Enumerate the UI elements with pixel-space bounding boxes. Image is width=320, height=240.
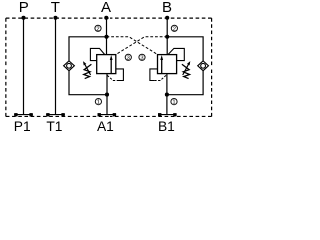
node A pilot junction: [104, 35, 108, 39]
relief valve V1 pilot loop (left): [90, 48, 104, 60]
wire check branch A top: [69, 37, 107, 61]
callout circle 2 (right): [171, 25, 177, 31]
svg-text:P: P: [19, 0, 29, 16]
check valve CV1 (diamond with ball): [64, 61, 75, 71]
wire below valve V1 to A1: [106, 74, 108, 115]
node A lower junction: [105, 93, 109, 97]
node P (dot on border): [21, 16, 25, 20]
relief valve V1 spring: [84, 64, 92, 78]
svg-text:2: 2: [96, 26, 99, 32]
svg-text:3: 3: [127, 55, 130, 61]
wire T to T1: [55, 18, 57, 115]
node A (dot on border): [104, 16, 108, 20]
wire B down to valve V2: [166, 18, 168, 55]
svg-text:A: A: [101, 0, 111, 16]
svg-text:B1: B1: [158, 119, 175, 132]
relief valve V1 spring adjust arrow: [84, 63, 91, 75]
svg-text:1: 1: [97, 100, 100, 106]
callout circle 2 (left): [95, 25, 101, 31]
svg-text:A1: A1: [97, 119, 114, 132]
port A1 face connection: [98, 113, 117, 116]
port T1 face connection: [46, 113, 65, 116]
wire A down to valve V1: [106, 18, 108, 55]
svg-text:T1: T1: [46, 119, 62, 132]
relief valve V1 body: [97, 55, 116, 74]
node T (dot on border): [53, 16, 57, 20]
node B lower junction: [165, 93, 169, 97]
relief valve V2 pilot loop (right): [168, 48, 184, 60]
svg-text:P1: P1: [14, 119, 31, 132]
relief valve V1 drain loop (right): [116, 69, 124, 81]
wire below valve V2 to B1: [166, 74, 168, 115]
relief valve V1 drain dashed link: [107, 75, 119, 80]
wire check branch A bottom: [69, 71, 107, 95]
wire P to P1: [23, 18, 25, 115]
relief valve V2 spring adjust arrow: [183, 63, 190, 75]
relief valve V2 drain loop (left): [150, 69, 158, 81]
pilot line B to V1 (dashed crossover): [116, 37, 167, 55]
callout circle 1 (right): [171, 99, 177, 105]
relief valve V2 flow arrow: [161, 58, 163, 73]
svg-text:3: 3: [140, 55, 143, 61]
svg-text:2: 2: [173, 26, 176, 32]
wire check branch B top: [167, 37, 203, 61]
callout circle 3 (right): [139, 54, 145, 60]
svg-text:1: 1: [172, 100, 175, 106]
node B pilot junction: [165, 35, 169, 39]
relief valve V2 drain dashed link: [154, 75, 166, 80]
check valve CV2 (diamond with ball): [198, 61, 209, 71]
callout circle 3 (left): [125, 54, 131, 60]
node B (dot on border): [165, 16, 169, 20]
port B1 face connection: [158, 113, 177, 116]
enclosure dashed border: [6, 18, 212, 116]
pilot line A to V2 (dashed crossover): [107, 37, 158, 55]
relief valve V1 flow arrow: [110, 58, 112, 73]
svg-text:B: B: [162, 0, 172, 16]
relief valve V2 spring: [182, 64, 190, 78]
callout circle 1 (left): [95, 99, 101, 105]
relief valve V2 body: [158, 55, 177, 74]
svg-text:T: T: [51, 0, 60, 16]
wire check branch B bottom: [167, 71, 203, 95]
port P1 face connection: [14, 113, 33, 116]
